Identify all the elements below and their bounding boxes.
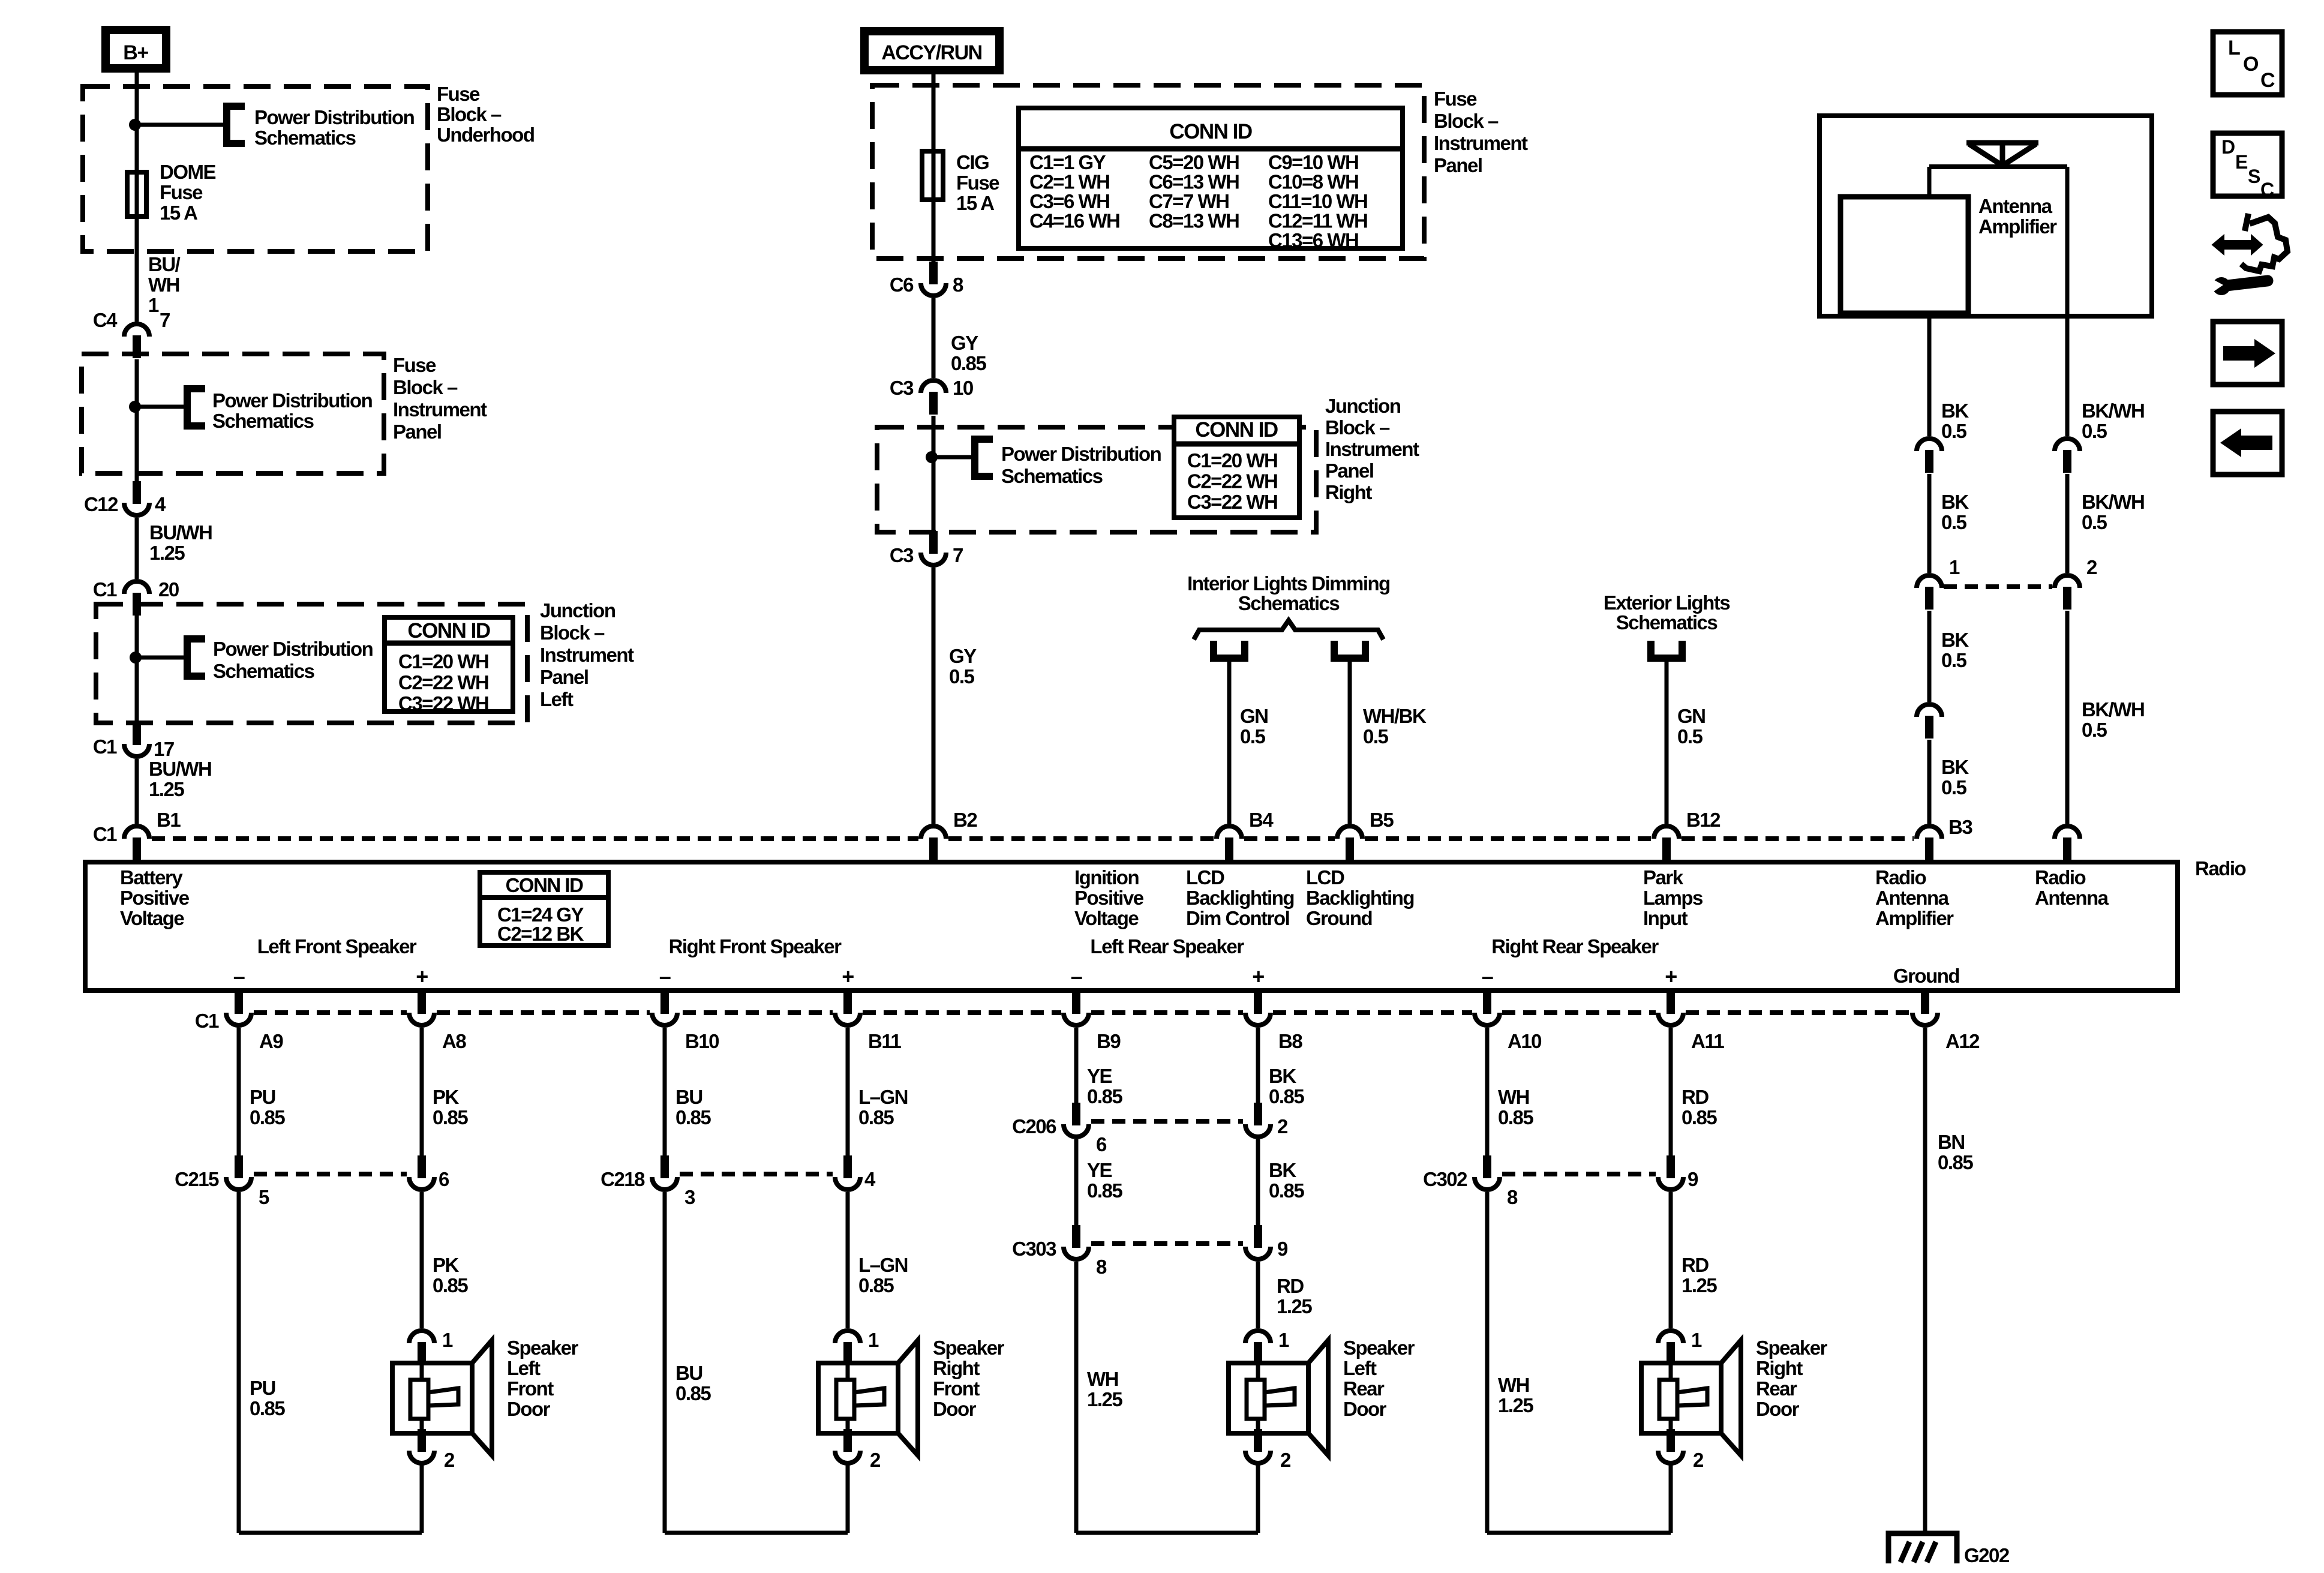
- wire LR speaker return: [1076, 1531, 1258, 1535]
- svg-text:B11: B11: [868, 1030, 901, 1052]
- wire A8 PK seg2: [420, 1192, 424, 1328]
- wire BKWH seg3: [2065, 611, 2070, 824]
- svg-text:4: 4: [864, 1168, 876, 1190]
- svg-text:B12: B12: [1686, 809, 1721, 831]
- wire B9 YE seg2: [1074, 1139, 1079, 1225]
- power symbol B+: [106, 30, 166, 68]
- icon repair (arrows + wrench): [2212, 235, 2262, 254]
- svg-text:6: 6: [1096, 1133, 1107, 1155]
- svg-text:BK0.5: BK0.5: [1941, 629, 1969, 671]
- svg-text:–: –: [233, 964, 245, 989]
- connector C215 pin 5: [226, 1155, 251, 1190]
- svg-text:BK0.5: BK0.5: [1941, 400, 1969, 442]
- svg-text:C1: C1: [195, 1010, 219, 1032]
- dashed line radio bottom connector row C1: [254, 1010, 407, 1015]
- svg-text:+: +: [842, 964, 854, 989]
- svg-text:5: 5: [259, 1186, 269, 1208]
- svg-text:Radio: Radio: [2195, 857, 2246, 879]
- fuse block instrument panel (dashed box): [82, 354, 384, 473]
- svg-text:B5: B5: [1370, 809, 1394, 831]
- antenna amplifier inner top edge: [1929, 164, 2067, 169]
- dashed pair line C206: [1091, 1119, 1243, 1124]
- wire ACCY to C6: [932, 74, 936, 262]
- icon box DESC: [2213, 133, 2282, 196]
- svg-text:9: 9: [1277, 1238, 1288, 1260]
- svg-text:C1: C1: [93, 736, 117, 758]
- wire A9 PU seg2: [237, 1192, 241, 1533]
- svg-text:B3: B3: [1948, 816, 1972, 838]
- brace over interior lights wires: [1194, 620, 1383, 640]
- wire LF pin2 down: [420, 1463, 424, 1533]
- wire branch 4: [933, 455, 971, 460]
- svg-text:G202: G202: [1964, 1544, 2010, 1566]
- svg-text:GN0.5: GN0.5: [1240, 705, 1268, 748]
- svg-text:Left Rear Speaker: Left Rear Speaker: [1090, 935, 1244, 957]
- svg-text:Left Front Speaker: Left Front Speaker: [257, 935, 417, 957]
- off-page connector exterior lights: [1651, 641, 1682, 658]
- fuse block underhood (dashed box): [83, 86, 428, 251]
- svg-text:1: 1: [1278, 1329, 1289, 1351]
- connector antenna pin 1: [1917, 575, 1942, 610]
- connector radio pin A11: [1658, 991, 1683, 1025]
- connector C303 pin 8: [1064, 1225, 1089, 1259]
- reference bracket power distribution 3: [187, 639, 205, 676]
- svg-text:1: 1: [442, 1329, 453, 1351]
- speaker pin 2 right rear door: [1658, 1429, 1683, 1463]
- svg-text:2: 2: [870, 1449, 881, 1471]
- speaker symbol right rear door: [1721, 1340, 1741, 1455]
- svg-text:1: 1: [868, 1329, 879, 1351]
- wire A12 BN to ground: [1923, 1028, 1927, 1531]
- svg-text:ACCY/RUN: ACCY/RUN: [881, 41, 981, 64]
- connector radio pin B3: [1917, 826, 1942, 860]
- wire C6 to C3-10: [932, 298, 936, 378]
- wire B10 BU seg2: [663, 1192, 667, 1533]
- fuse DOME 15A: [127, 172, 146, 217]
- svg-text:C: C: [2260, 69, 2275, 92]
- junction node: [129, 401, 141, 413]
- wire A8 PK seg1: [420, 1028, 424, 1155]
- connector C218 pin 3: [652, 1155, 677, 1190]
- svg-text:Exterior Lights: Exterior Lights: [1604, 592, 1730, 614]
- CONN ID table (radio): [480, 872, 608, 945]
- wire C12 to C1-20: [135, 518, 139, 579]
- svg-text:17: 17: [154, 738, 174, 760]
- antenna amplifier outer box: [1819, 116, 2152, 316]
- fuse block instrument panel (dashed box, ACCY): [872, 85, 1424, 259]
- svg-text:A12: A12: [1945, 1030, 1980, 1052]
- connector radio pin A9: [226, 991, 251, 1025]
- connector C1 pin 17: [124, 722, 149, 757]
- svg-text:20: 20: [158, 578, 179, 601]
- off-page connector interior lights 2: [1334, 641, 1365, 658]
- svg-text:C206: C206: [1012, 1115, 1056, 1137]
- wire antenna amp left edge / BK: [1927, 167, 1932, 436]
- wire B10 BU seg1: [663, 1028, 667, 1155]
- svg-text:B1: B1: [157, 809, 181, 831]
- wire RF speaker return: [665, 1531, 848, 1535]
- fuse CIG 15A: [922, 151, 943, 200]
- wire A11 RD seg1: [1669, 1028, 1673, 1155]
- svg-text:9: 9: [1688, 1168, 1698, 1190]
- wire B8 BK seg2: [1256, 1139, 1260, 1225]
- svg-text:Schematics: Schematics: [1616, 611, 1718, 634]
- speaker pin 2 left front door: [409, 1429, 434, 1463]
- connector radio pin B1: [124, 826, 149, 860]
- svg-text:–: –: [659, 964, 671, 989]
- svg-text:A10: A10: [1508, 1030, 1541, 1052]
- wire RF pin2 down: [846, 1463, 850, 1533]
- speaker pin 1 right front door: [835, 1331, 860, 1365]
- speaker pin 1 left front door: [409, 1331, 434, 1365]
- wire LF speaker return: [239, 1531, 422, 1535]
- dashed pair line C218: [680, 1172, 833, 1176]
- svg-text:2: 2: [1277, 1115, 1288, 1137]
- svg-text:O: O: [2243, 53, 2259, 76]
- svg-text:C218: C218: [600, 1168, 645, 1190]
- wire B8 BK seg1: [1256, 1028, 1260, 1103]
- svg-text:C9=10 WHC10=8 WHC11=10 WHC12=1: C9=10 WHC10=8 WHC11=10 WHC12=11 WHC13=6 …: [1268, 151, 1367, 251]
- svg-text:C215: C215: [175, 1168, 219, 1190]
- connector radio pin B2: [921, 826, 946, 860]
- wire branch 2: [137, 405, 184, 409]
- connector radio pin A10: [1475, 991, 1500, 1025]
- svg-text:Right Rear Speaker: Right Rear Speaker: [1491, 935, 1659, 957]
- wire RR pin2 down: [1669, 1463, 1673, 1533]
- power symbol ACCY/RUN: [864, 31, 999, 70]
- svg-text:A9: A9: [259, 1030, 283, 1052]
- connector radio pin A8: [409, 991, 434, 1025]
- svg-text:4: 4: [155, 493, 166, 515]
- svg-text:2: 2: [444, 1449, 455, 1471]
- wire C1-17 to B1: [135, 759, 139, 824]
- CONN ID table (junction block right): [1174, 417, 1299, 518]
- wire branch to power distribution ref: [137, 123, 225, 127]
- junction node: [129, 119, 141, 131]
- svg-text:WH0.85: WH0.85: [1498, 1086, 1533, 1128]
- speaker symbol left front door: [472, 1340, 492, 1455]
- svg-text:8: 8: [953, 274, 963, 296]
- wire B9 WH seg3: [1074, 1262, 1079, 1533]
- wire B9 YE seg1: [1074, 1028, 1079, 1103]
- svg-text:3: 3: [684, 1186, 695, 1208]
- icon box arrow left: [2213, 412, 2282, 475]
- antenna symbol: [1966, 143, 2038, 167]
- svg-text:B8: B8: [1278, 1030, 1302, 1052]
- wire branch 3: [137, 656, 184, 660]
- reference bracket power distribution 2: [187, 389, 205, 426]
- dashed line radio top connector row C1: [152, 836, 918, 841]
- wire GN to B12: [1665, 658, 1669, 824]
- connector antenna BK 3: [1917, 704, 1942, 739]
- off-page connector interior lights 1: [1214, 641, 1245, 658]
- connector antenna BK 1: [1917, 439, 1942, 473]
- connector C3 pin 7: [921, 531, 946, 565]
- wire antenna amp right edge / BK-WH: [2065, 167, 2070, 436]
- svg-text:C12: C12: [84, 493, 118, 515]
- connector C206 pin 2: [1245, 1103, 1271, 1137]
- svg-text:C1: C1: [93, 823, 117, 845]
- wire B11 L-GN seg2: [846, 1192, 850, 1328]
- junction node: [130, 652, 142, 664]
- svg-text:C1=20 WHC2=22 WHC3=22 WH: C1=20 WHC2=22 WHC3=22 WH: [398, 650, 488, 715]
- svg-text:10: 10: [953, 377, 973, 399]
- wire GN to B4: [1227, 658, 1232, 824]
- svg-text:B+: B+: [123, 41, 148, 64]
- svg-text:CONN ID: CONN ID: [1169, 120, 1252, 143]
- dashed pair line C303: [1091, 1241, 1243, 1246]
- speaker pin 2 left rear door: [1245, 1429, 1271, 1463]
- connector radio pin A12: [1912, 991, 1938, 1025]
- wire C1-20 to C1-17: [135, 616, 139, 722]
- wire C4 to C12: [135, 359, 139, 481]
- wire A11 RD seg2: [1669, 1192, 1673, 1328]
- svg-text:IgnitionPositiveVoltage: IgnitionPositiveVoltage: [1074, 866, 1144, 929]
- connector radio pin B11: [835, 991, 860, 1025]
- svg-text:1: 1: [1949, 556, 1960, 578]
- svg-text:2: 2: [2086, 556, 2097, 578]
- junction node: [926, 451, 938, 463]
- svg-text:E: E: [2235, 151, 2248, 173]
- reference bracket power distribution 4: [975, 439, 993, 476]
- connector C215 pin 6: [409, 1155, 434, 1190]
- wire C3-10 to C3-7: [932, 416, 936, 531]
- speaker pin 2 right front door: [835, 1429, 860, 1463]
- CONN ID table (fuse block IP): [1019, 108, 1403, 248]
- connector radio pin B4: [1217, 826, 1242, 860]
- svg-text:CONN ID: CONN ID: [506, 874, 584, 896]
- dashed pair line C302: [1502, 1172, 1656, 1176]
- connector antenna BK/WH 1: [2055, 439, 2080, 473]
- connector C1 pin 20: [124, 581, 149, 616]
- svg-text:+: +: [1252, 964, 1264, 989]
- svg-text:Right Front Speaker: Right Front Speaker: [669, 935, 842, 957]
- svg-text:6: 6: [439, 1168, 449, 1190]
- svg-text:1: 1: [1691, 1329, 1702, 1351]
- svg-text:BK0.5: BK0.5: [1941, 756, 1969, 798]
- svg-text:S: S: [2248, 166, 2260, 187]
- svg-text:+: +: [416, 964, 428, 989]
- connector radio pin B5: [1337, 826, 1362, 860]
- connector radio pin B9: [1064, 991, 1089, 1025]
- svg-text:C3: C3: [890, 544, 914, 566]
- svg-text:GY0.5: GY0.5: [949, 645, 977, 688]
- wire B+ to C4: [135, 73, 139, 322]
- connector C12 pin 4: [124, 481, 149, 515]
- svg-text:C4: C4: [93, 309, 118, 331]
- reference bracket power distribution 1: [227, 106, 245, 143]
- svg-text:WH1.25: WH1.25: [1498, 1374, 1533, 1416]
- svg-text:C3: C3: [890, 377, 914, 399]
- svg-text:–: –: [1071, 964, 1082, 989]
- wire B11 L-GN seg1: [846, 1028, 850, 1155]
- wire A9 PU seg1: [237, 1028, 241, 1155]
- svg-text:B2: B2: [953, 809, 977, 831]
- svg-text:8: 8: [1507, 1186, 1518, 1208]
- svg-text:C1: C1: [93, 578, 117, 601]
- svg-text:C1=20 WHC2=22 WHC3=22 WH: C1=20 WHC2=22 WHC3=22 WH: [1187, 449, 1277, 513]
- connector C3 pin 10: [921, 380, 946, 415]
- svg-text:C5=20 WHC6=13 WHC7=7 WHC8=13 W: C5=20 WHC6=13 WHC7=7 WHC8=13 WH: [1149, 151, 1239, 232]
- wire BK seg2: [1927, 474, 1932, 573]
- svg-text:WH1.25: WH1.25: [1087, 1368, 1122, 1410]
- svg-text:2: 2: [1280, 1449, 1291, 1471]
- svg-text:Interior Lights Dimming: Interior Lights Dimming: [1187, 572, 1390, 595]
- dashed connector pair line antenna: [1944, 584, 2052, 589]
- speaker pin 1 left rear door: [1245, 1331, 1271, 1365]
- svg-text:C303: C303: [1012, 1238, 1056, 1260]
- wire BKWH seg2: [2065, 474, 2070, 573]
- radio box: [85, 862, 2178, 990]
- svg-text:A8: A8: [442, 1030, 466, 1052]
- ground symbol G202: [1888, 1533, 1957, 1563]
- connector radio pin B8: [1245, 991, 1271, 1025]
- wire BK seg4: [1927, 740, 1932, 824]
- CONN ID table (junction block left): [385, 617, 513, 712]
- svg-text:A11: A11: [1691, 1030, 1724, 1052]
- svg-text:C: C: [2260, 179, 2274, 200]
- svg-text:+: +: [1665, 964, 1677, 989]
- svg-text:Ground: Ground: [1893, 965, 1959, 987]
- svg-text:–: –: [1482, 964, 1493, 989]
- dashed pair line C215: [254, 1172, 407, 1176]
- connector C218 pin 4: [835, 1155, 860, 1190]
- svg-text:8: 8: [1096, 1256, 1107, 1278]
- connector radio pin B12: [1654, 826, 1679, 860]
- connector radio pin B10: [652, 991, 677, 1025]
- svg-text:GN0.5: GN0.5: [1677, 705, 1706, 748]
- connector C4 pin 7: [124, 324, 149, 358]
- svg-text:BK0.5: BK0.5: [1941, 491, 1969, 533]
- wire RR speaker return: [1487, 1531, 1671, 1535]
- connector C303 pin 9: [1245, 1225, 1271, 1259]
- svg-text:C302: C302: [1423, 1168, 1467, 1190]
- svg-text:2: 2: [1693, 1449, 1704, 1471]
- svg-text:BatteryPositiveVoltage: BatteryPositiveVoltage: [120, 866, 190, 929]
- svg-text:CONN ID: CONN ID: [1195, 418, 1278, 442]
- connector C302 pin 9: [1658, 1155, 1683, 1190]
- svg-text:B4: B4: [1249, 809, 1274, 831]
- wire WH/BK to B5: [1348, 658, 1352, 824]
- svg-text:Schematics: Schematics: [1238, 592, 1340, 614]
- svg-text:B9: B9: [1097, 1030, 1121, 1052]
- svg-text:7: 7: [953, 544, 963, 566]
- speaker symbol right front door: [898, 1340, 918, 1455]
- wire LR pin2 down: [1256, 1463, 1260, 1533]
- wire BK seg3: [1927, 611, 1932, 702]
- svg-text:C1=24 GYC2=12 BK: C1=24 GYC2=12 BK: [497, 903, 584, 945]
- connector antenna pin 2: [2055, 575, 2080, 610]
- svg-text:CONN ID: CONN ID: [407, 619, 490, 643]
- icon box arrow right: [2213, 322, 2282, 385]
- svg-text:AntennaAmplifier: AntennaAmplifier: [1978, 195, 2057, 238]
- icon box LOC: [2213, 32, 2282, 95]
- speaker pin 1 right rear door: [1658, 1331, 1683, 1365]
- wire C3-7 to B2: [932, 568, 936, 824]
- connector C6 pin 8: [921, 262, 946, 296]
- svg-text:7: 7: [160, 309, 170, 331]
- wire B8 RD seg3: [1256, 1262, 1260, 1328]
- junction block instrument panel left (dashed box): [96, 604, 527, 723]
- connector C302 pin 8: [1475, 1155, 1500, 1190]
- svg-text:L: L: [2228, 37, 2240, 59]
- antenna amplifier inner module box: [1840, 197, 1968, 313]
- wire A10 WH seg2: [1485, 1192, 1490, 1533]
- connector radio pin radio antenna: [2055, 826, 2080, 860]
- speaker symbol left rear door: [1308, 1340, 1328, 1455]
- connector C206 pin 6: [1064, 1103, 1089, 1137]
- svg-text:C6: C6: [890, 274, 914, 296]
- junction block instrument panel right (dashed box): [877, 427, 1316, 532]
- svg-text:D: D: [2221, 136, 2235, 158]
- wire A10 WH seg1: [1485, 1028, 1490, 1155]
- svg-text:B10: B10: [685, 1030, 719, 1052]
